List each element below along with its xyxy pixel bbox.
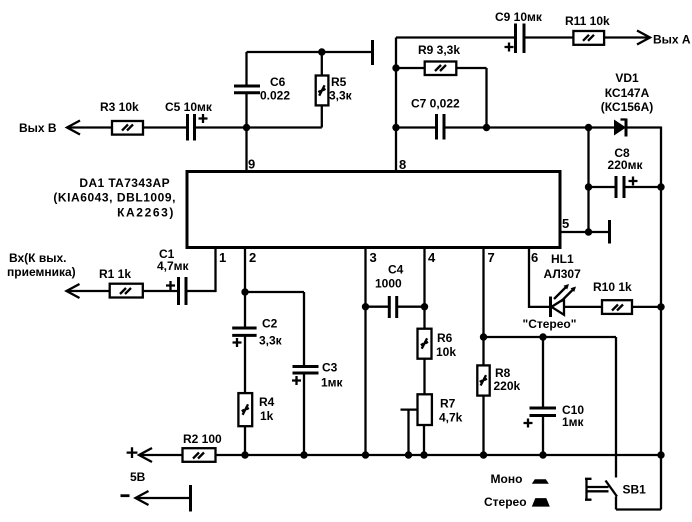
svg-text:R4: R4 [259,395,275,409]
capacitor C10 [524,337,585,455]
resistor R11 [565,14,610,45]
svg-text:R3 10k: R3 10k [100,100,139,114]
svg-text:С6: С6 [270,75,286,89]
svg-text:2: 2 [249,250,256,265]
capacitor C9 [495,10,543,53]
node rail C10 [539,451,546,458]
node diode tap [585,124,592,131]
svg-text:1k: 1k [260,409,274,423]
wire right vertical rail [660,127,662,510]
svg-text:3,3к: 3,3к [259,334,283,348]
svg-text:С7 0,022: С7 0,022 [411,97,460,111]
node pin2 branch [241,288,248,295]
svg-text:Вых В: Вых В [19,121,57,135]
wire C5 to R5 bottom [195,126,322,128]
resistor R10 [593,280,661,314]
wire VD1 to right rail [626,126,661,128]
capacitor C6 [234,52,290,128]
input Вх label [7,251,76,279]
node pin7 stereo [480,333,487,340]
svg-text:SB1: SB1 [623,483,647,497]
wire stabilizer vertical [587,128,589,233]
svg-text:С9 10мк: С9 10мк [495,10,543,24]
output Вых В arrow [19,121,112,136]
svg-text:9: 9 [248,157,255,172]
svg-text:R6: R6 [437,331,453,345]
zener diode VD1 [601,71,654,137]
svg-text:8: 8 [399,157,406,172]
svg-text:1мк: 1мк [562,415,585,429]
resistor R3 [100,100,143,135]
svg-text:приемника): приемника) [7,265,76,279]
node C7 left [392,124,399,131]
svg-text:4,7k: 4,7k [439,411,463,425]
capacitor C7 [396,97,487,140]
svg-text:5: 5 [562,216,569,231]
resistor R8 [477,365,520,455]
svg-text:0.022: 0.022 [260,89,290,103]
resistor R1 [99,267,143,298]
svg-text:С5 10мк: С5 10мк [165,100,213,114]
resistor R6 [418,329,457,395]
svg-text:HL1: HL1 [551,252,574,266]
pin 5 wire and label [560,216,610,232]
svg-text:10k: 10k [436,345,456,359]
capacitor C8 [589,146,662,198]
wire stereo line [484,336,617,338]
pin 8 wire and label [396,38,406,173]
resistor R2 [183,432,223,462]
node R9 left [392,64,399,71]
node R5 top [318,48,325,55]
svg-text:6: 6 [531,250,538,265]
capacitor C4 [366,263,425,319]
legend Stereo position [484,495,550,509]
ground chassis T top [371,40,374,65]
svg-text:КС147А: КС147А [605,86,650,100]
svg-text:3,3к: 3,3к [329,89,353,103]
node C4 right [421,303,428,310]
node rail R7 [420,451,427,458]
svg-text:4: 4 [428,250,436,265]
pin 4 wire and label [425,248,437,329]
node R10 right [657,303,664,310]
svg-text:4,7мк: 4,7мк [157,259,190,273]
node rail R7 tap [405,451,412,458]
svg-text:VD1: VD1 [615,71,639,85]
svg-text:7: 7 [488,250,495,265]
node rail R8 [480,451,487,458]
pin 3 wire and label [366,248,377,456]
ground chassis T minus [189,485,192,512]
node pin9 top [243,124,250,131]
pin 1 wire and label [186,248,226,293]
pin 2 wire and label [245,248,256,329]
resistor R4 [238,393,274,455]
svg-text:Вых А: Вых А [653,33,691,47]
pin 7 wire and label [484,248,495,366]
svg-text:R1 1k: R1 1k [99,267,131,281]
wire R3 to C5 [143,126,187,128]
svg-text:С2: С2 [262,317,278,331]
wire R1 to C1 [143,290,179,292]
wire pin8 to C9 [396,36,516,38]
svg-text:R11 10k: R11 10k [565,14,610,28]
legend Mono position [491,472,549,486]
svg-text:R7: R7 [440,397,456,411]
resistor R9 [396,43,487,128]
input arrow [67,284,110,298]
svg-text:5В: 5В [130,470,146,484]
node C7 right [483,124,490,131]
svg-text:КА2263): КА2263) [117,206,175,220]
pin 9 wire and label [247,128,256,172]
svg-text:(КС156А): (КС156А) [601,100,654,114]
wire C9 to R11 [524,36,573,38]
output Вых А arrow [604,31,691,47]
node C4 left [362,303,369,310]
node C8 left [585,183,592,190]
svg-text:R10 1k: R10 1k [593,280,632,294]
wire top rail C6/R5 [247,51,373,53]
svg-text:220мк: 220мк [608,158,644,172]
LED HL1 [523,252,603,331]
capacitor C5 [165,100,213,141]
svg-text:220k: 220k [494,379,521,393]
supply plus arrow [127,447,183,484]
node rail right [657,451,664,458]
capacitor C2 [232,317,282,394]
node pin5 [585,228,592,235]
svg-text:R9 3,3k: R9 3,3k [418,43,460,57]
svg-text:DA1 TA7343AP: DA1 TA7343AP [79,176,170,190]
wire C7 to VD1 [487,126,615,128]
svg-text:С4: С4 [388,263,404,277]
svg-text:С3: С3 [322,361,338,375]
svg-text:1: 1 [219,250,226,265]
capacitor C3 [292,292,344,455]
resistor R5 [316,52,353,128]
svg-text:Стерео: Стерео [484,495,527,509]
switch SB1 [585,337,661,510]
svg-text:1мк: 1мк [321,376,344,390]
svg-text:"Стерео": "Стерео" [523,317,577,331]
svg-text:R8: R8 [495,366,511,380]
capacitor C1 [157,247,190,305]
ground chassis T pin5 [608,220,611,244]
resistor R7 trimmer [401,394,463,455]
svg-text:R5: R5 [331,75,347,89]
node rail R4 [241,451,248,458]
wire pin2 to C3 branch [245,291,304,293]
node C10 top [539,333,546,340]
node C8 right [657,183,664,190]
svg-text:(KIA6043, DBL1009,: (KIA6043, DBL1009, [53,191,176,205]
IC U1 DA1 TA7343AP body [53,172,560,248]
svg-text:3: 3 [370,250,377,265]
supply minus arrow [121,491,191,505]
wire bottom supply rail [216,454,662,456]
svg-text:АЛ307: АЛ307 [544,267,582,281]
svg-text:Моно: Моно [491,472,523,486]
pin 6 wire and label [529,248,550,307]
node rail C3 [300,451,307,458]
svg-text:1000: 1000 [375,277,402,291]
svg-text:Вх(К вых.: Вх(К вых. [9,251,66,265]
svg-text:R2 100: R2 100 [183,432,222,446]
node rail pin3 [362,451,369,458]
